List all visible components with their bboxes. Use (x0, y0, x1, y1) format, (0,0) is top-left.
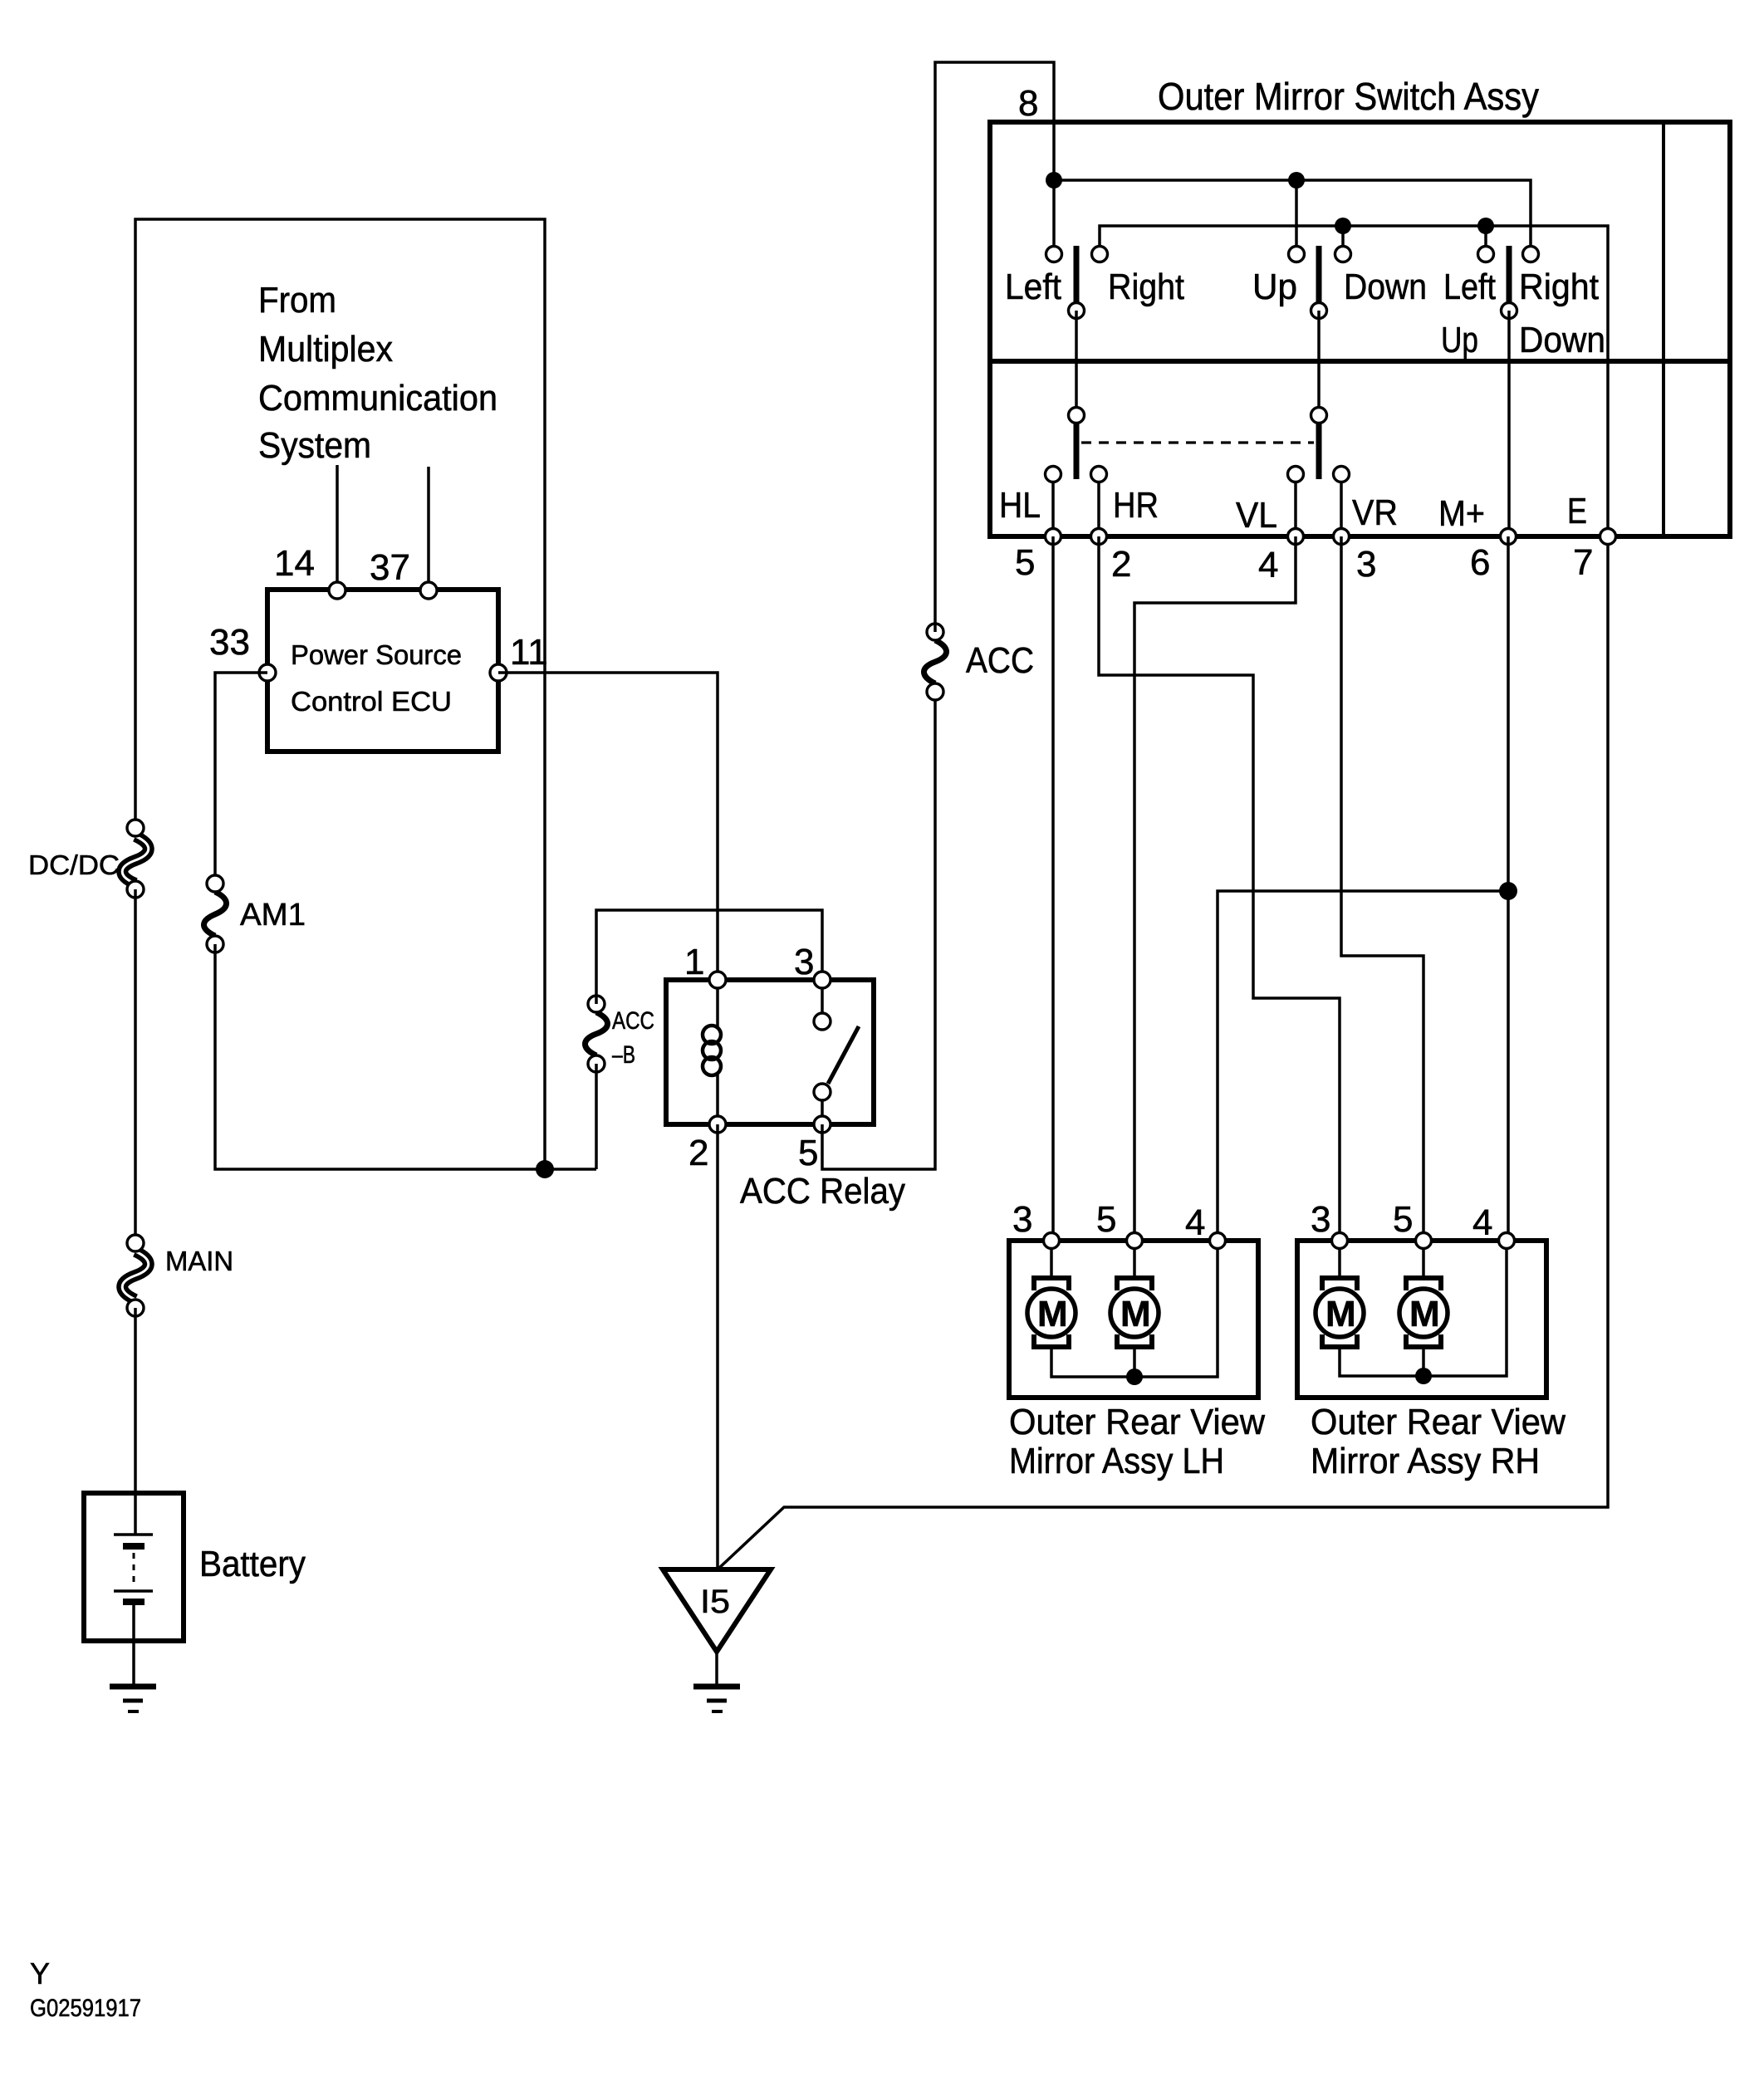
terminal 5 HL (1046, 529, 1061, 545)
pin 14 (329, 582, 345, 599)
svg-text:5: 5 (1393, 1199, 1413, 1240)
svg-text:–B: –B (612, 1041, 635, 1069)
motor RH vertical (1399, 1278, 1448, 1347)
svg-text:33: 33 (209, 622, 250, 663)
svg-text:Up: Up (1252, 267, 1297, 307)
wire battery feed lower (134, 1308, 137, 1493)
wire ACC-B bottom to bus (595, 1064, 598, 1169)
pin 4 RH (1499, 1233, 1515, 1249)
wire ACC-B top to relay pin3 (596, 910, 822, 1004)
node dot B2 (1477, 218, 1494, 234)
svg-text:3: 3 (794, 942, 814, 982)
node dot M+ (1499, 882, 1517, 900)
node dot RH bus (1415, 1368, 1432, 1384)
contact HR (1091, 467, 1107, 482)
wire LH internal bottom bus (1051, 1241, 1218, 1377)
terminal 3 VR (1334, 529, 1350, 545)
svg-text:7: 7 (1573, 542, 1593, 583)
motor box Outer Rear View Mirror Assy LH (1009, 1241, 1265, 1481)
pin 3 RH (1332, 1233, 1348, 1249)
wire S3 pole to M+ (1507, 311, 1511, 536)
svg-text:6: 6 (1470, 542, 1490, 583)
svg-text:Left: Left (1005, 267, 1061, 307)
wire dashed gang link (1081, 441, 1314, 443)
fuse MAIN (122, 1235, 233, 1316)
wire RH M2 bottom (1422, 1347, 1425, 1376)
wire pin33 to AM1 (215, 673, 267, 884)
wire M+ branch to LH pin4 (1218, 891, 1508, 1241)
terminal 4 VL (1288, 529, 1304, 545)
svg-text:8: 8 (1018, 83, 1038, 124)
wire RH internal M1 top (1338, 1241, 1341, 1279)
ground I5 triangle (663, 1569, 771, 1711)
svg-text:HL: HL (999, 485, 1041, 526)
svg-text:Outer Rear View: Outer Rear View (1009, 1402, 1265, 1442)
svg-text:Control ECU: Control ECU (291, 686, 452, 717)
relay pin 3 (814, 972, 831, 988)
svg-text:Right: Right (1108, 267, 1184, 307)
svg-text:M: M (1325, 1294, 1356, 1334)
relay coil (703, 980, 721, 1124)
switch S1 lower pole (1069, 408, 1085, 480)
wire HR to RH pin3 (1099, 536, 1340, 1241)
relay pin 2 (709, 1116, 726, 1133)
node junction dot bus (536, 1160, 554, 1178)
wire relay pin5 to ACC fuse (822, 692, 935, 1169)
svg-text:14: 14 (274, 543, 315, 584)
svg-text:1: 1 (684, 942, 704, 982)
svg-text:I5: I5 (700, 1584, 730, 1620)
node dot B1 (1335, 218, 1351, 234)
svg-text:4: 4 (1185, 1202, 1205, 1243)
svg-text:Up: Up (1441, 320, 1478, 360)
terminal 2 HR (1091, 529, 1107, 545)
pin 5 RH (1416, 1233, 1432, 1249)
svg-text:4: 4 (1258, 545, 1278, 585)
relay pin 1 (709, 972, 726, 988)
wire LH internal M2 top (1133, 1241, 1136, 1279)
wire net B drop Down (1341, 226, 1345, 246)
wire relay pin2 to ground (716, 1124, 719, 1569)
fuse DC/DC (28, 820, 149, 898)
svg-text:3: 3 (1356, 544, 1376, 585)
wire HL contact stub (1051, 474, 1055, 536)
svg-text:Down: Down (1519, 320, 1605, 360)
pin 33 (259, 664, 276, 681)
svg-text:From: From (258, 280, 336, 321)
wire RH internal M2 top (1422, 1241, 1425, 1279)
node dot LH bus (1126, 1368, 1143, 1385)
pin 11 (490, 664, 507, 681)
svg-text:Outer Mirror Switch Assy: Outer Mirror Switch Assy (1158, 75, 1539, 118)
wire AM1 down to bus (215, 944, 596, 1169)
svg-text:2: 2 (1111, 544, 1131, 585)
wire VL contact stub (1294, 474, 1297, 536)
svg-text:2: 2 (688, 1133, 708, 1173)
terminal 7 E (1600, 529, 1616, 545)
wire pin11 to relay pin1 (498, 673, 718, 980)
svg-text:M: M (1037, 1294, 1068, 1334)
svg-text:Mirror Assy LH: Mirror Assy LH (1009, 1441, 1224, 1481)
fuse AM1 (203, 875, 306, 952)
svg-text:DC/DC: DC/DC (28, 849, 120, 880)
wire HR contact stub (1097, 474, 1100, 536)
svg-text:Y: Y (30, 1956, 50, 1990)
wire net A y217 (1054, 180, 1531, 246)
svg-text:5: 5 (1096, 1199, 1116, 1240)
fuse ACC (924, 624, 1034, 700)
motor box Outer Rear View Mirror Assy RH (1297, 1241, 1566, 1481)
op-amp U1 Power Source Control ECU box (267, 590, 498, 752)
svg-text:Left: Left (1443, 267, 1496, 307)
wire battery feed top loop (135, 219, 545, 1169)
svg-text:M: M (1120, 1294, 1151, 1334)
battery B1 (84, 1493, 306, 1687)
svg-text:System: System (258, 425, 371, 466)
svg-text:4: 4 (1472, 1202, 1492, 1243)
wire VL to LH pin5 (1134, 536, 1296, 1241)
wire M+ to RH pin4 (1507, 536, 1510, 1241)
motor RH horizontal (1316, 1278, 1364, 1347)
svg-text:3: 3 (1012, 1199, 1032, 1240)
wire HL to LH pin3 (1051, 536, 1055, 1241)
contact VL (1288, 467, 1304, 482)
wire battery feed mid (134, 889, 137, 1243)
node From Multiplex Communication System (258, 280, 497, 466)
switch box Outer Mirror Switch Assy (990, 75, 1730, 536)
pin 5 LH (1127, 1233, 1143, 1249)
node dot A2 (1288, 172, 1305, 189)
wire ACC fuse top to switch pin 8 (935, 62, 1054, 632)
svg-text:Mirror Assy RH: Mirror Assy RH (1311, 1441, 1540, 1481)
svg-text:AM1: AM1 (240, 898, 306, 933)
relay switch blade (814, 980, 859, 1124)
relay pin 5 (814, 1116, 831, 1133)
pin 37 (420, 582, 437, 599)
svg-text:VR: VR (1352, 492, 1398, 533)
contact HL (1046, 467, 1061, 482)
wire multiplex stub to pin 14 (336, 465, 339, 590)
svg-text:MAIN: MAIN (165, 1246, 233, 1276)
svg-text:M+: M+ (1438, 493, 1485, 534)
wire LH M2 bottom (1133, 1347, 1136, 1377)
svg-text:G02591917: G02591917 (30, 1995, 141, 2022)
pin 3 LH (1044, 1233, 1060, 1249)
wire net B y272 (1100, 226, 1608, 536)
svg-text:E: E (1567, 491, 1587, 531)
wire RH internal bottom bus (1340, 1241, 1507, 1376)
svg-text:Battery: Battery (199, 1544, 306, 1584)
wire S1 pole link (1075, 311, 1078, 415)
svg-text:5: 5 (798, 1133, 818, 1173)
svg-text:Right: Right (1519, 267, 1599, 307)
wire multiplex stub to pin 37 (427, 467, 430, 590)
fuse ACC-B (585, 996, 654, 1072)
svg-text:M: M (1409, 1294, 1440, 1334)
contact VR (1334, 467, 1350, 482)
wire VR contact stub (1340, 474, 1343, 536)
switch S1 Left/Right (1005, 246, 1184, 319)
wire net B drop LeftUp (1484, 226, 1487, 246)
svg-text:11: 11 (510, 632, 548, 673)
svg-text:ACC: ACC (612, 1007, 654, 1035)
svg-text:VL: VL (1236, 495, 1277, 536)
wire ground bus E (718, 536, 1608, 1569)
svg-text:ACC Relay: ACC Relay (740, 1171, 905, 1212)
svg-text:5: 5 (1015, 542, 1035, 583)
switch S3 LeftUp/RightDown (1441, 246, 1605, 360)
svg-text:Down: Down (1344, 267, 1427, 307)
wire LH internal M1 top (1050, 1241, 1053, 1279)
svg-text:Power Source: Power Source (291, 639, 462, 670)
svg-text:37: 37 (370, 547, 410, 588)
svg-text:3: 3 (1311, 1199, 1330, 1240)
wire net A drop Up (1295, 180, 1298, 246)
ground battery (110, 1687, 156, 1711)
relay ACC Relay box (666, 980, 905, 1212)
svg-text:Outer Rear View: Outer Rear View (1311, 1402, 1566, 1442)
svg-text:ACC: ACC (966, 640, 1034, 681)
switch S2 Up/Down (1252, 246, 1427, 319)
motor LH horizontal (1027, 1278, 1076, 1347)
wire VR to RH pin5 (1341, 536, 1423, 1241)
wire S2 pole link (1317, 311, 1321, 415)
terminal 6 M+ (1501, 529, 1517, 545)
svg-text:Multiplex: Multiplex (258, 329, 393, 370)
switch S2 lower pole (1311, 408, 1327, 480)
motor LH vertical (1110, 1278, 1159, 1347)
node dot A1 (1046, 172, 1062, 189)
svg-text:HR: HR (1113, 485, 1159, 526)
svg-text:Communication: Communication (258, 378, 497, 419)
pin 4 LH (1210, 1233, 1226, 1249)
